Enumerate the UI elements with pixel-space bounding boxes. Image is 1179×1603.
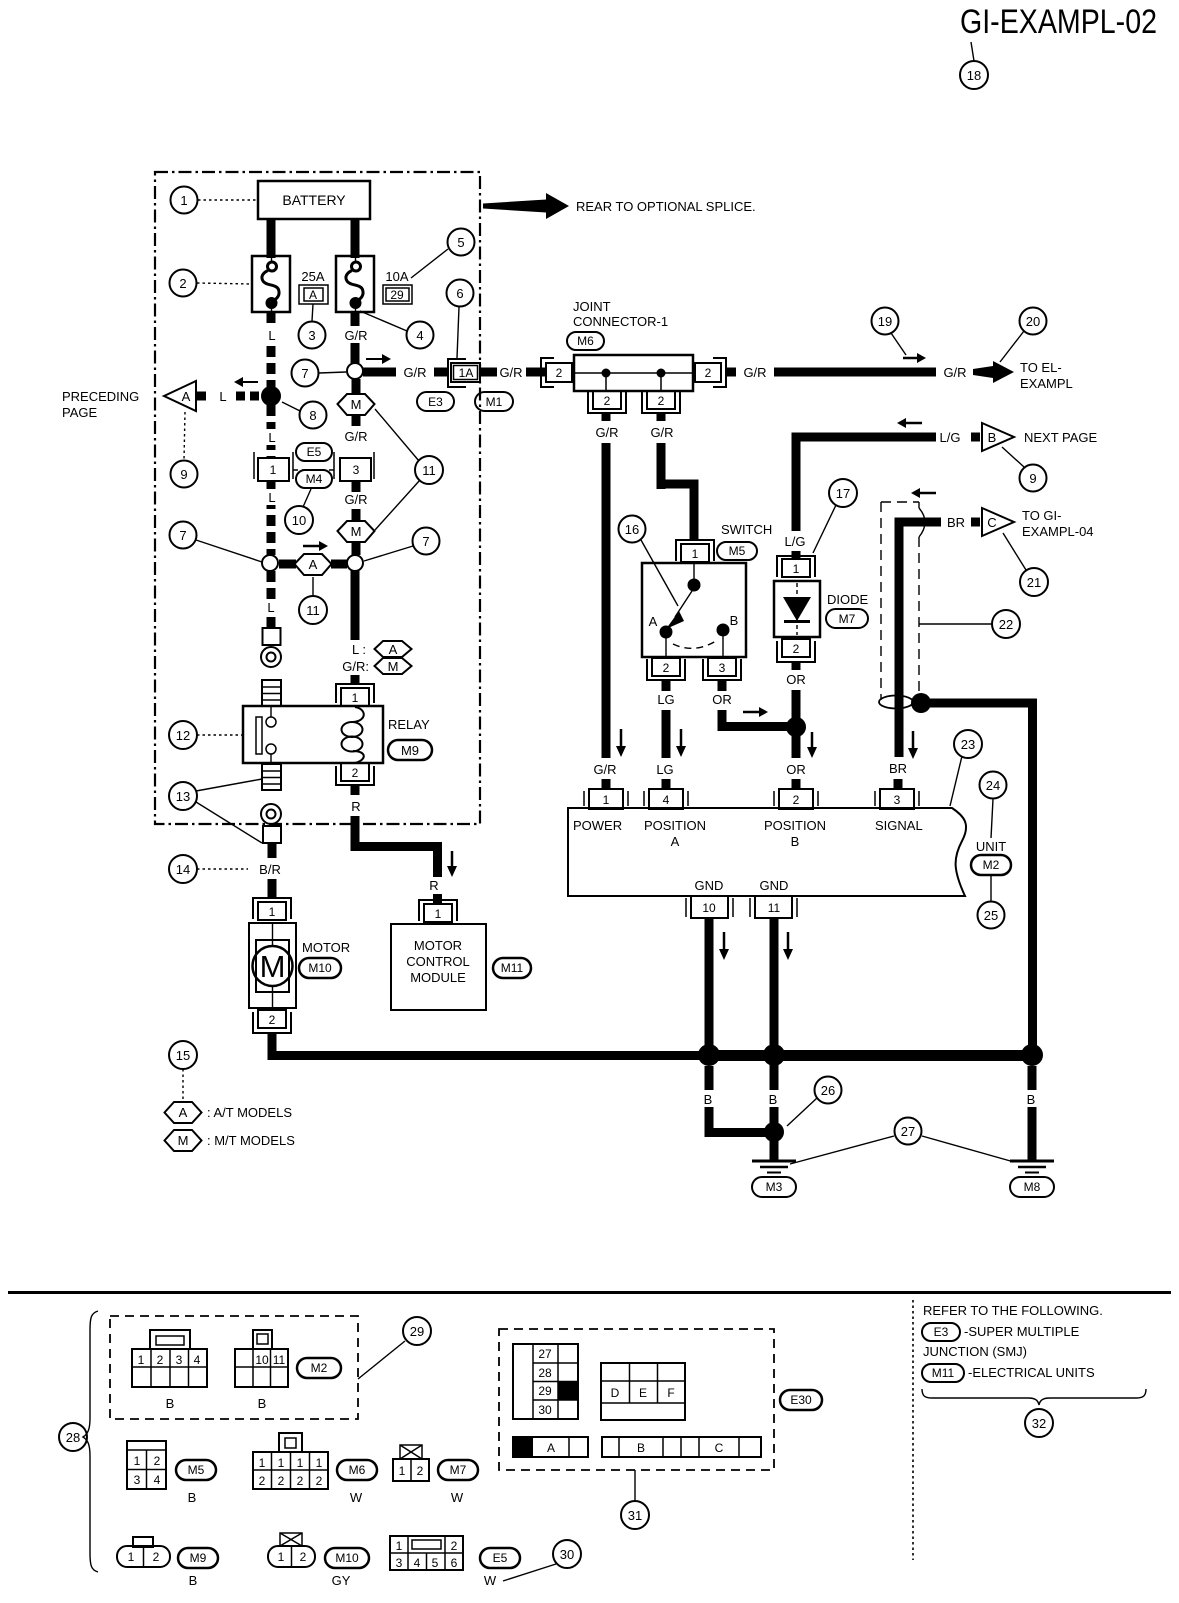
junction dot BR/bus <box>911 693 931 713</box>
dashed box M2 connectors <box>110 1316 358 1419</box>
svg-text:GY: GY <box>332 1573 351 1588</box>
svg-text:4: 4 <box>194 1353 201 1367</box>
joint connector JC body <box>574 355 693 391</box>
arrow down LG <box>680 729 683 746</box>
hexagon M on G/R wire (lower) <box>338 521 375 542</box>
wire corner to switch <box>661 484 694 540</box>
svg-text:E3: E3 <box>934 1325 949 1339</box>
svg-text:30: 30 <box>538 1403 552 1417</box>
svg-text:1: 1 <box>278 1456 285 1470</box>
svg-text:F: F <box>667 1386 674 1400</box>
connector 1A (SMJ) <box>448 359 480 387</box>
svg-text:MOTOR: MOTOR <box>302 940 350 955</box>
svg-text:LG: LG <box>657 692 674 707</box>
striped block above relay <box>262 680 281 706</box>
svg-text:14: 14 <box>176 862 190 877</box>
callout 6 <box>457 307 459 358</box>
svg-text:B: B <box>188 1490 197 1505</box>
svg-text:1: 1 <box>435 907 442 921</box>
svg-text:1: 1 <box>259 1456 266 1470</box>
bottom separator line <box>8 1291 1171 1294</box>
svg-text:12: 12 <box>176 728 190 743</box>
connector M10 bowtie <box>280 1533 302 1546</box>
svg-text:DIODE: DIODE <box>827 592 869 607</box>
connector E5 grid <box>390 1536 463 1570</box>
svg-text:25A: 25A <box>301 269 324 284</box>
grommet below relay <box>261 804 281 824</box>
svg-text:M11: M11 <box>501 961 524 975</box>
svg-text:M2: M2 <box>311 1361 328 1375</box>
svg-text:MOTOR: MOTOR <box>414 938 462 953</box>
svg-text:C: C <box>987 515 996 530</box>
svg-text:A: A <box>389 642 398 657</box>
oval M5 <box>717 542 757 560</box>
oval M6 <box>337 1460 377 1480</box>
svg-text:G/R:: G/R: <box>342 659 369 674</box>
svg-text:4: 4 <box>154 1473 161 1487</box>
black square before B triangle <box>971 433 980 442</box>
page connector triangle B (next page) <box>982 423 1014 451</box>
fuse label 25A / A <box>299 269 328 304</box>
svg-text:3: 3 <box>353 463 360 477</box>
svg-text:M10: M10 <box>335 1551 359 1565</box>
callout 8 <box>282 402 300 411</box>
callout 1 <box>198 199 258 201</box>
callout 2 <box>197 283 252 284</box>
wire G/R below FL2 <box>351 312 360 363</box>
svg-text:A: A <box>309 557 318 572</box>
callout 9 left <box>184 412 185 460</box>
wire R relay pin2 <box>351 785 360 795</box>
svg-text:G/R: G/R <box>499 365 522 380</box>
open circle left (row 2) <box>262 555 278 571</box>
fusible link FL1 <box>252 256 290 312</box>
svg-text:G/R: G/R <box>943 365 966 380</box>
unit pin 10 <box>686 896 733 918</box>
svg-text:24: 24 <box>986 778 1000 793</box>
svg-text:W: W <box>451 1490 464 1505</box>
svg-text:CONTROL: CONTROL <box>406 954 470 969</box>
page connector triangle C (to GI-EXAMPL-04) <box>982 508 1014 536</box>
E30 row B C <box>602 1437 761 1457</box>
connector M7 cells <box>393 1459 429 1481</box>
callout 25 <box>990 875 992 901</box>
svg-text:M4: M4 <box>306 472 323 486</box>
svg-text:W: W <box>484 1573 497 1588</box>
connector M10 body <box>268 1546 315 1567</box>
wire battery left lead <box>267 219 276 258</box>
JC bottom pin 2 (left) <box>588 391 626 413</box>
svg-text:23: 23 <box>961 737 975 752</box>
connector M2-A grid <box>132 1349 207 1387</box>
svg-text:M8: M8 <box>1024 1180 1041 1194</box>
svg-text:SIGNAL: SIGNAL <box>875 818 923 833</box>
svg-text:1: 1 <box>692 547 699 561</box>
svg-text:M9: M9 <box>190 1551 207 1565</box>
svg-text:EXAMPL: EXAMPL <box>1020 376 1073 391</box>
svg-text:POSITION: POSITION <box>644 818 706 833</box>
svg-text:M: M <box>388 659 399 674</box>
connector M6 tab <box>279 1433 302 1452</box>
brace for group 28 <box>83 1311 98 1572</box>
svg-text:1A: 1A <box>459 366 474 380</box>
svg-text:OR: OR <box>786 762 806 777</box>
svg-text:17: 17 <box>836 486 850 501</box>
motor pin 2 <box>253 1010 291 1033</box>
svg-text:2: 2 <box>300 1550 307 1564</box>
svg-text:16: 16 <box>625 522 639 537</box>
switch SW1 body <box>642 563 746 657</box>
wire L dashed below FL1 <box>267 312 276 387</box>
svg-text:22: 22 <box>999 617 1013 632</box>
dashed box E30 <box>499 1329 774 1470</box>
svg-text:POSITION: POSITION <box>764 818 826 833</box>
svg-text:15: 15 <box>176 1048 190 1063</box>
wire jog to ground <box>709 1066 774 1133</box>
svg-text:7: 7 <box>301 366 308 381</box>
svg-text:C: C <box>715 1441 724 1455</box>
svg-text:31: 31 <box>628 1508 642 1523</box>
arrow down right of junction <box>811 732 814 747</box>
motor pin 1 <box>253 898 291 920</box>
svg-text:2: 2 <box>297 1474 304 1488</box>
callout 11 upper <box>375 409 419 461</box>
svg-text:L/G: L/G <box>785 534 806 549</box>
unit pin 3 <box>875 789 919 809</box>
svg-text:25: 25 <box>984 908 998 923</box>
ground symbol M3 <box>752 1161 796 1197</box>
label G/R <box>341 326 371 343</box>
wire G/R row2 down to legend <box>351 571 360 640</box>
detail callout dashed box <box>881 502 925 700</box>
switch pin 3 <box>703 658 741 680</box>
wire stub to relay pin1 <box>351 675 360 685</box>
oval M4 <box>296 470 332 488</box>
svg-text:GND: GND <box>695 878 724 893</box>
callout 4 <box>360 311 407 331</box>
svg-text:OR: OR <box>786 672 806 687</box>
svg-text:4: 4 <box>416 328 423 343</box>
wire L below row2 <box>267 571 276 600</box>
arrow down R <box>451 851 454 866</box>
arrow right above hexagon A <box>303 545 319 548</box>
legend hexagon A <box>165 1102 202 1123</box>
callout 14 <box>197 868 248 870</box>
svg-text:M6: M6 <box>349 1463 366 1477</box>
E30 DEF grid <box>601 1363 685 1420</box>
wire G/R JC drop 2 <box>657 413 666 421</box>
svg-text:A: A <box>182 389 191 404</box>
oval M11 <box>493 958 531 978</box>
oval M9 <box>178 1548 218 1568</box>
svg-text:E3: E3 <box>428 395 443 409</box>
svg-text:M10: M10 <box>308 961 332 975</box>
svg-text:G/R: G/R <box>593 762 616 777</box>
svg-text:LG: LG <box>656 762 673 777</box>
callout 7 row2 right <box>364 546 413 561</box>
wire L below conn1 <box>267 481 276 555</box>
callout 13 <box>196 779 262 791</box>
refer column separator <box>912 1300 914 1560</box>
svg-text:G/R: G/R <box>344 492 367 507</box>
hop ellipse over BR wire <box>879 696 913 709</box>
inline box on L column <box>263 628 281 645</box>
svg-text:1: 1 <box>128 1550 135 1564</box>
svg-text:M1: M1 <box>486 395 503 409</box>
svg-text:GND: GND <box>760 878 789 893</box>
E30 row A <box>513 1437 588 1457</box>
black square before C triangle <box>971 518 980 527</box>
svg-text:PRECEDING: PRECEDING <box>62 389 139 404</box>
connector M2-B tab <box>253 1330 272 1349</box>
svg-text:A: A <box>649 614 658 629</box>
svg-text:G/R: G/R <box>403 365 426 380</box>
black square terminal <box>197 392 206 401</box>
E30 left grid <box>513 1344 578 1419</box>
svg-text:R: R <box>351 799 360 814</box>
relay pin 2 <box>336 763 374 785</box>
fusible link FL2 <box>336 256 374 312</box>
svg-text:2: 2 <box>278 1474 285 1488</box>
svg-text:A: A <box>309 288 317 302</box>
svg-text:10: 10 <box>292 513 306 528</box>
svg-text:9: 9 <box>180 467 187 482</box>
svg-text:OR: OR <box>712 692 732 707</box>
svg-text:REFER TO THE FOLLOWING.: REFER TO THE FOLLOWING. <box>923 1303 1103 1318</box>
callout 19 with arrow <box>872 308 899 335</box>
wire R to module <box>355 816 438 877</box>
inline connector 3 on G/R wire <box>334 452 374 481</box>
callout 22 <box>919 623 992 625</box>
svg-text:27: 27 <box>901 1124 915 1139</box>
svg-text:GI-EXAMPL-02: GI-EXAMPL-02 <box>960 3 1157 41</box>
svg-text:B: B <box>988 430 997 445</box>
page connector triangle A (preceding page) <box>164 381 196 411</box>
junction dot bus left <box>698 1044 720 1066</box>
svg-text:B: B <box>166 1396 175 1411</box>
svg-text:TO GI-: TO GI- <box>1022 508 1061 523</box>
svg-text:3: 3 <box>894 793 901 807</box>
oval M7 <box>438 1460 478 1480</box>
switch pin 2 <box>647 658 685 680</box>
svg-text:B/R: B/R <box>259 862 281 877</box>
svg-text:: M/T MODELS: : M/T MODELS <box>207 1133 295 1148</box>
callout 15 <box>169 1041 197 1069</box>
callout 29 <box>358 1341 405 1379</box>
svg-text:13: 13 <box>176 789 190 804</box>
svg-text:R: R <box>429 878 438 893</box>
svg-text:6: 6 <box>451 1556 458 1570</box>
oval M1 <box>475 392 513 411</box>
svg-text:E5: E5 <box>493 1551 508 1565</box>
svg-text:1: 1 <box>396 1539 403 1553</box>
svg-text:BATTERY: BATTERY <box>282 192 346 208</box>
svg-text:1: 1 <box>297 1456 304 1470</box>
callout 20 <box>1000 331 1024 362</box>
wire battery right lead <box>351 219 360 258</box>
connector M6 grid <box>253 1452 328 1489</box>
callout 31 <box>634 1470 636 1501</box>
callout 21 <box>1003 533 1026 570</box>
optional wiring boundary (dash-dot box) <box>155 172 480 824</box>
wire GND 11 <box>770 918 779 1160</box>
svg-text:2: 2 <box>153 1550 160 1564</box>
wire BR stub to unit <box>894 779 903 790</box>
svg-text:5: 5 <box>457 235 464 250</box>
svg-text:28: 28 <box>538 1366 552 1380</box>
svg-text:2: 2 <box>259 1474 266 1488</box>
label B right <box>1023 1090 1040 1107</box>
svg-text:2: 2 <box>793 642 800 656</box>
arrow down G/R at unit <box>620 729 623 746</box>
svg-text:10A: 10A <box>385 269 408 284</box>
oval E5 <box>296 443 332 461</box>
callout 32 <box>1025 1409 1053 1437</box>
JC right pin 2 <box>695 358 726 387</box>
junction dot OR <box>786 717 806 737</box>
svg-text:TO EL-: TO EL- <box>1020 360 1062 375</box>
svg-text:M: M <box>351 524 362 539</box>
mating dashed line conn1-conn3 <box>293 469 338 471</box>
wire bus right from junction <box>921 703 1033 1060</box>
relay RY1 <box>243 706 383 763</box>
svg-text:4: 4 <box>414 1556 421 1570</box>
arrow down gnd11 <box>787 932 790 949</box>
oval M5 <box>176 1460 216 1480</box>
unit pin 2 <box>774 789 818 809</box>
junction dot jog <box>764 1122 784 1142</box>
callout 3 <box>312 304 313 321</box>
svg-text:2: 2 <box>451 1539 458 1553</box>
callout 16 <box>619 516 646 543</box>
svg-text:32: 32 <box>1032 1416 1046 1431</box>
svg-text:MODULE: MODULE <box>410 970 466 985</box>
svg-text:A: A <box>547 1441 555 1455</box>
label B mid <box>765 1090 782 1107</box>
svg-text:11: 11 <box>768 901 781 915</box>
arrow left above L/G row <box>906 422 922 425</box>
wire L/G from next-page row down to diode <box>796 437 936 531</box>
unit pin 11 <box>750 896 797 918</box>
svg-text:11: 11 <box>306 603 320 618</box>
svg-text:M9: M9 <box>401 743 419 758</box>
svg-text:3: 3 <box>719 661 726 675</box>
wire BR corner to C triangle <box>899 522 941 757</box>
callout 23 <box>950 756 962 806</box>
arrow right OR <box>743 711 759 714</box>
svg-text:21: 21 <box>1027 575 1041 590</box>
svg-text:G/R: G/R <box>344 429 367 444</box>
callout 27 <box>790 1136 894 1164</box>
open circle right (row 2) <box>347 555 363 571</box>
svg-text:EXAMPL-04: EXAMPL-04 <box>1022 524 1094 539</box>
svg-text:6: 6 <box>456 286 463 301</box>
callout 7 row1 <box>319 372 346 373</box>
svg-text:M2: M2 <box>983 858 1000 872</box>
wire OR below switch to junction <box>718 680 727 691</box>
svg-text:1: 1 <box>180 193 187 208</box>
diode pin 2 <box>777 639 815 662</box>
svg-text:1: 1 <box>793 562 800 576</box>
oval M10 <box>325 1548 369 1568</box>
svg-text:2: 2 <box>316 1474 323 1488</box>
JC bottom pin 2 (right) <box>642 391 680 413</box>
connector M7 bowtie <box>400 1445 422 1459</box>
svg-text:M5: M5 <box>729 544 746 558</box>
label L <box>263 326 280 343</box>
wire GND 10 <box>705 918 714 1060</box>
svg-text:-ELECTRICAL UNITS: -ELECTRICAL UNITS <box>968 1365 1095 1380</box>
wire B/R motor lead <box>268 843 277 858</box>
svg-text:5: 5 <box>432 1556 439 1570</box>
wire motor to ground bus <box>272 1033 700 1056</box>
svg-text:29: 29 <box>390 288 404 302</box>
svg-text:BR: BR <box>889 761 907 776</box>
svg-text:2: 2 <box>604 394 611 408</box>
svg-text:G/R: G/R <box>650 425 673 440</box>
oval M7 <box>826 609 868 628</box>
label G/R <box>352 415 361 426</box>
junction dot bus mid <box>763 1044 785 1066</box>
svg-text:1: 1 <box>352 691 359 705</box>
unit pin 1 <box>584 789 628 809</box>
svg-text:: A/T MODELS: : A/T MODELS <box>207 1105 292 1120</box>
ground bus <box>700 1050 1037 1061</box>
svg-text:L: L <box>268 430 275 445</box>
label L <box>263 429 280 445</box>
svg-text:3: 3 <box>176 1353 183 1367</box>
svg-text:3: 3 <box>396 1556 403 1570</box>
svg-text:M7: M7 <box>839 612 856 626</box>
svg-text:29: 29 <box>538 1384 552 1398</box>
connector M9 body <box>117 1546 170 1567</box>
svg-text:UNIT: UNIT <box>976 839 1006 854</box>
label B left <box>700 1090 717 1107</box>
ground symbol M8 <box>1010 1161 1054 1197</box>
svg-text:9: 9 <box>1029 471 1036 486</box>
callout 9 right <box>1002 447 1024 467</box>
solid arrow to EL-EXAMPL <box>973 361 1014 383</box>
svg-text:M: M <box>178 1133 189 1148</box>
fuse label 10A / 29 <box>383 269 412 304</box>
svg-text:2: 2 <box>352 766 359 780</box>
svg-text:E: E <box>639 1386 647 1400</box>
wire OR below diode <box>792 662 801 670</box>
connector M9 tab <box>133 1537 153 1547</box>
label L <box>263 489 280 505</box>
callout 7 row2 left <box>196 540 262 562</box>
callout 18 <box>960 61 988 89</box>
svg-text:L: L <box>268 328 275 343</box>
motor M10 body <box>249 923 296 1008</box>
arrow down gnd10 <box>723 932 726 949</box>
svg-text:E5: E5 <box>307 445 322 459</box>
svg-text:27: 27 <box>538 1347 552 1361</box>
JC left pin 2 <box>541 358 572 387</box>
callout 17 <box>829 479 857 507</box>
svg-text:M3: M3 <box>766 1180 783 1194</box>
svg-text:G/R: G/R <box>595 425 618 440</box>
svg-text:M7: M7 <box>450 1463 467 1477</box>
callout 30 <box>503 1564 556 1581</box>
svg-text:B: B <box>704 1092 713 1107</box>
svg-text:3: 3 <box>134 1473 141 1487</box>
svg-text:2: 2 <box>417 1464 424 1478</box>
svg-text:RELAY: RELAY <box>388 717 430 732</box>
svg-text:L: L <box>219 389 226 404</box>
svg-text:10: 10 <box>255 1353 269 1367</box>
svg-text:10: 10 <box>702 901 716 915</box>
